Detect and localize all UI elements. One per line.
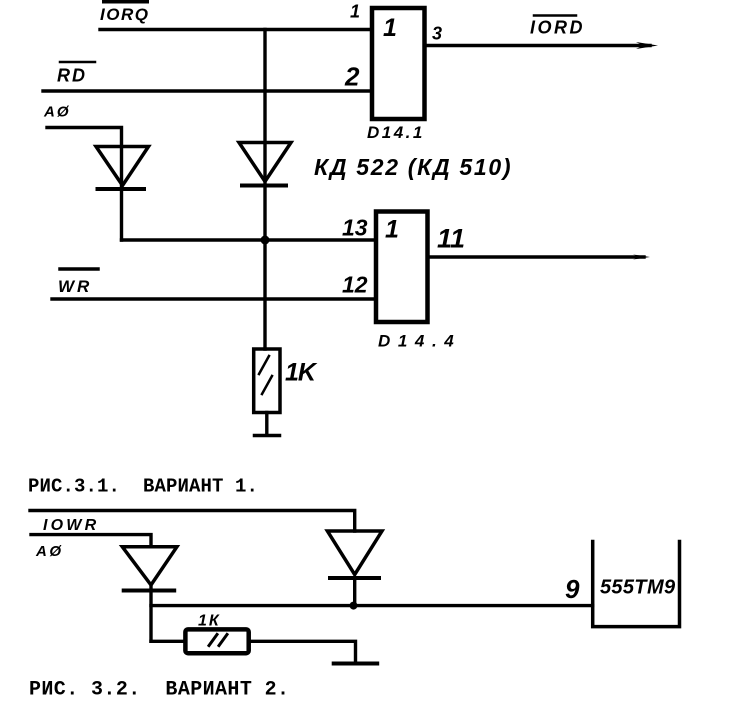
svg-text:11: 11 — [437, 224, 465, 254]
svg-text:2: 2 — [344, 62, 360, 92]
svg-text:9: 9 — [565, 574, 580, 604]
svg-text:IORD: IORD — [530, 18, 585, 38]
svg-text:RD: RD — [57, 66, 87, 86]
svg-text:IOWR: IOWR — [43, 517, 99, 534]
svg-text:3: 3 — [432, 24, 442, 44]
svg-text:РИС.3.1. ВАРИАНТ 1.: РИС.3.1. ВАРИАНТ 1. — [28, 476, 258, 498]
svg-text:РИС. 3.2. ВАРИАНТ 2.: РИС. 3.2. ВАРИАНТ 2. — [29, 679, 289, 702]
svg-text:1: 1 — [385, 216, 399, 244]
svg-text:D14.4: D14.4 — [378, 332, 461, 351]
svg-text:IORQ: IORQ — [100, 5, 149, 24]
svg-text:WR: WR — [58, 277, 92, 296]
svg-text:D14.1: D14.1 — [367, 123, 425, 142]
svg-text:КД 522 (КД 510): КД 522 (КД 510) — [314, 154, 512, 180]
svg-text:1: 1 — [350, 2, 360, 22]
svg-text:12: 12 — [342, 272, 368, 298]
svg-text:555ТМ9: 555ТМ9 — [600, 577, 676, 599]
svg-text:1К: 1К — [198, 613, 221, 630]
svg-text:AØ: AØ — [43, 104, 71, 121]
svg-text:1: 1 — [383, 14, 397, 42]
svg-text:1K: 1K — [285, 359, 318, 387]
svg-text:13: 13 — [342, 215, 368, 241]
svg-text:AØ: AØ — [35, 543, 64, 560]
